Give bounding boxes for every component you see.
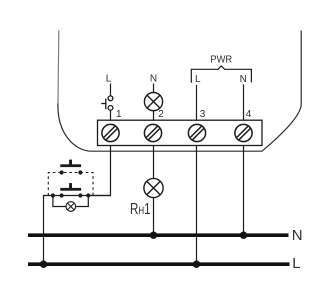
svg-text:L: L — [106, 74, 112, 85]
terminal screw 2 — [144, 124, 161, 141]
junction dot on L bus at switch wire — [40, 261, 47, 268]
wire terminal 2 to lamp Rh1 — [153, 146, 155, 179]
junction dot row left — [51, 193, 55, 197]
terminal screw 1 — [102, 124, 119, 141]
N bus line — [28, 233, 289, 237]
svg-text:2: 2 — [158, 109, 164, 120]
pushbutton S1 (top, in wall switch) — [60, 160, 81, 168]
terminal screw 4 — [235, 124, 252, 141]
svg-text:4: 4 — [246, 109, 252, 120]
backlight lamp loop wire — [53, 196, 88, 207]
terminal block — [98, 120, 263, 145]
device outline body — [58, 31, 301, 152]
junction dot on L bus at terminal 3 wire — [193, 261, 200, 268]
PWR bracket — [191, 66, 251, 83]
wire terminal 3 to L bus — [196, 146, 198, 265]
L bus line — [28, 262, 290, 266]
wire lamp to terminal 2 — [153, 111, 155, 121]
terminal screw 3 — [188, 124, 205, 141]
svg-text:3: 3 — [200, 109, 206, 120]
svg-text:PWR: PWR — [210, 55, 232, 66]
wire PWR N to terminal 4 — [243, 84, 245, 120]
svg-text:RH1: RH1 — [130, 201, 151, 218]
wire N label to lamp — [153, 84, 155, 93]
lamp Rh1 — [144, 178, 163, 197]
svg-text:N: N — [240, 74, 247, 85]
svg-text:L: L — [292, 255, 300, 272]
wire PWR L to terminal 3 — [196, 85, 198, 120]
wire terminal 4 to N bus — [243, 146, 245, 236]
wall switch unit (dashed box) — [48, 173, 93, 196]
wire pushbutton to terminal 1 — [110, 110, 112, 120]
pushbutton S (momentary, terminal 1) — [101, 96, 113, 110]
pushbutton S2 (bottom, in wall switch) — [60, 183, 81, 191]
backlight lamp in switch — [66, 202, 76, 212]
wire switch common row — [44, 195, 111, 197]
junction dot on N bus at lamp wire — [150, 232, 157, 239]
device outline left side — [57, 31, 60, 105]
svg-text:N: N — [292, 227, 303, 244]
svg-text:L: L — [195, 74, 201, 85]
wire L label to pushbutton — [110, 84, 112, 96]
svg-text:1: 1 — [116, 109, 122, 120]
wire switch to L bus — [43, 195, 45, 264]
junction dot on N bus at terminal 4 wire — [240, 232, 247, 239]
lamp indicator at terminal 2 — [144, 93, 162, 111]
wire lamp Rh1 to N bus — [153, 198, 155, 236]
svg-text:N: N — [150, 74, 157, 85]
junction dot row right — [86, 193, 90, 197]
wire terminal 1 down and left to switch — [88, 146, 110, 196]
